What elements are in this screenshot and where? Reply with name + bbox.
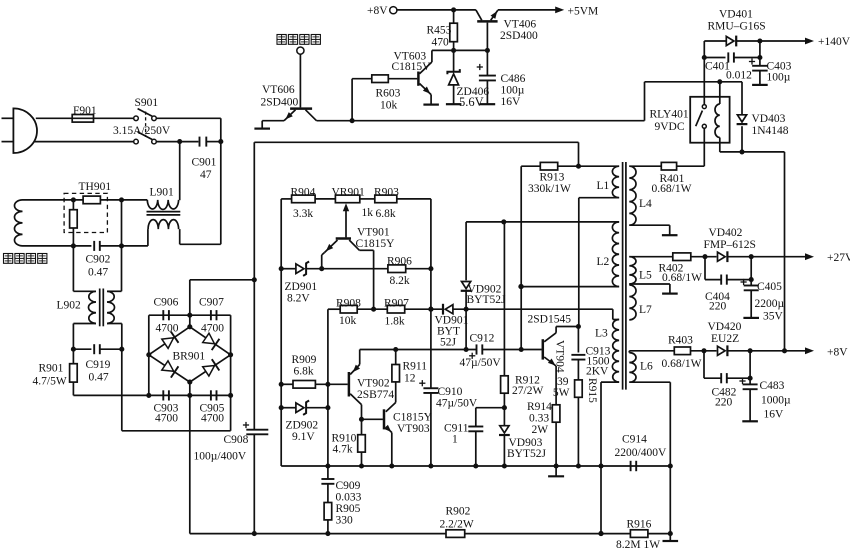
svg-text:100µ/400V: 100µ/400V [194,451,247,463]
svg-text:100µ: 100µ [767,72,791,84]
label L6 [640,361,653,373]
potentiometer VR901 [335,195,359,203]
winding L5 [629,257,636,284]
wire control return [281,463,673,468]
svg-text:4.7/5W: 4.7/5W [33,376,67,388]
svg-text:0.68/1W: 0.68/1W [662,358,702,370]
svg-text:R916: R916 [627,519,652,531]
label R402 0.68/1W [659,263,703,285]
svg-text:C907: C907 [199,297,224,309]
wire L6 bottom down [629,382,670,533]
svg-text:6.8k: 6.8k [376,208,396,220]
ground at R916 [663,534,679,541]
wire L2 top [466,219,619,224]
wire to C911 [476,408,505,427]
capacitor C909 [321,466,334,503]
wire L1 top [576,164,619,169]
wire C404 left [705,257,721,280]
svg-text:C902: C902 [86,254,111,266]
svg-text:330: 330 [336,515,354,527]
svg-text:+5VM: +5VM [568,6,599,18]
svg-text:RLY401: RLY401 [650,109,689,121]
capacitor C403 + ground [749,41,768,85]
bridge diode D1 [162,332,179,349]
svg-text:1N4148: 1N4148 [752,125,789,137]
label R403 0.68/1W [662,335,702,371]
wire to ZD902 [281,407,296,409]
svg-text:FMP–612S: FMP–612S [704,239,756,251]
label +140V [818,36,850,48]
svg-text:+8V: +8V [827,346,848,358]
label R902 2.2/2W [440,506,474,531]
label C486 100u 16V [501,73,526,108]
label VT902 2SB774 [357,378,394,402]
transformer T901 core [623,162,626,390]
degaussing coil [15,200,23,246]
capacitor C405 + ground [741,257,760,318]
ground at R914 [548,466,564,476]
capacitor C911 [468,427,483,467]
svg-text:BR901: BR901 [173,351,206,363]
svg-text:C908: C908 [224,434,249,446]
transistor VT902 base bar [348,372,351,397]
wire L902 right to bridge AC2 [122,349,231,431]
wire ZD902 right [306,407,328,409]
label C483 1000u 16V [760,380,792,421]
label R910 4.7k [332,433,357,456]
svg-text:RMU–G16S: RMU–G16S [708,21,766,33]
label VD903 BYT52J [507,437,547,460]
label R915 39 5W [553,376,598,403]
svg-text:8.2k: 8.2k [390,275,410,287]
TH901 dashed box [64,193,107,232]
svg-text:12: 12 [404,373,416,385]
capacitor C903 [163,390,169,400]
wire L5-L7 tap + ground [629,284,677,294]
label L1 [597,180,610,192]
resistor R401 [661,162,676,170]
svg-text:BYT52J: BYT52J [507,448,547,460]
capacitor C912 [469,344,521,359]
svg-text:L6: L6 [640,361,653,373]
label R603 10k [376,88,401,112]
svg-text:VD402: VD402 [709,227,743,239]
wire R402 to VD402 [691,254,717,259]
wire to L902 right top [107,246,122,291]
label C912 47u/50V [460,333,502,370]
svg-text:R906: R906 [387,256,412,268]
resistor R402 [673,253,691,261]
capacitor C908 [243,422,268,534]
wire degauss top [23,199,84,201]
label S901 [135,97,159,109]
svg-text:C405: C405 [757,281,782,293]
wire C482 left [704,351,721,378]
wire VD902 cathode [465,291,467,309]
capacitor C483 + ground [739,351,758,422]
wire R401 right [677,143,705,167]
capacitor C913 [571,327,585,380]
svg-text:+27V: +27V [827,252,850,264]
label C914 2200/400V [615,434,667,460]
svg-text:330k/1W: 330k/1W [528,183,571,195]
svg-text:1.8k: 1.8k [385,316,405,328]
label L901 [150,187,175,199]
bridge diode D2 [203,333,220,350]
relay RLY401 contacts [696,97,707,129]
svg-text:S901: S901 [135,97,159,109]
wire R908 left down [325,309,340,468]
label VT904 [554,340,566,373]
label VT901 C1815Y [356,227,396,251]
capacitor C902 [94,241,100,251]
AC plug P901 [2,108,38,153]
svg-text:R909: R909 [292,354,317,366]
wire ZD901 to R906 [306,266,388,271]
label C911 1 [444,423,469,446]
label L3 [595,328,608,340]
wire HV+ drop to R913 node [578,142,580,166]
svg-text:5.6V: 5.6V [459,95,484,109]
svg-text:R901: R901 [39,363,64,375]
wire R907 to VD901 [405,307,443,312]
svg-text:2SD400: 2SD400 [261,97,299,109]
svg-text:L3: L3 [595,328,608,340]
wire L902 left bottom [73,324,96,350]
bridge diode D4 [203,359,220,376]
svg-text:R914: R914 [527,401,552,413]
label VD403 1N4148 [752,113,789,137]
wire standby to VT606 base [299,54,301,107]
svg-text:1000µ: 1000µ [761,395,791,407]
svg-text:1: 1 [452,434,458,446]
label VD420 EU2Z [708,321,742,345]
svg-text:C906: C906 [154,297,179,309]
svg-text:C919: C919 [86,359,111,371]
resistor R403 [674,347,690,355]
transistor VT603 emitter + ground [420,84,439,105]
svg-text:2200/400V: 2200/400V [615,447,667,459]
svg-text:3.3k: 3.3k [293,208,313,220]
diode VD402 [718,251,728,262]
wire R901 to bridge [73,394,148,396]
svg-text:C1815Y: C1815Y [356,238,396,250]
label C401 0.012 [705,61,752,82]
wire VD902 anode [465,222,467,280]
wire L3 top stub [613,309,619,319]
switch S901 [134,109,157,144]
zener ZD902 [296,401,309,415]
winding L1 [612,166,619,198]
label L4 [639,198,652,210]
transistor VT903 emitter [384,425,394,469]
resistor R603 [372,75,389,83]
resistor R907 [387,305,404,313]
svg-text:4700: 4700 [201,323,224,335]
svg-text:8.2M 1W: 8.2M 1W [616,539,660,549]
bridge side rails [149,315,231,431]
label ZD902 9.1V [286,420,319,444]
svg-text:4.7k: 4.7k [333,444,353,456]
capacitor C919 [94,344,100,354]
label R904 3.3k [291,186,316,220]
capacitor C486 + ground [477,50,496,104]
svg-text:4700: 4700 [201,413,224,425]
transistor VT902 emitter [350,350,360,375]
wire bridge - down to rail [189,395,191,533]
bridge diode D3 [162,361,179,378]
capacitor C482 [721,373,752,383]
svg-text:470: 470 [432,37,450,49]
VR901 wiper arm [343,203,349,237]
label C404 220 [705,291,730,313]
svg-text:R902: R902 [446,506,471,518]
diode VD901 [443,304,453,315]
label R912 27/2W [512,375,543,398]
wire VD90x node to C912 row [464,309,469,352]
wire bridge - stub [189,382,191,395]
capacitor C906 [163,310,169,320]
wire R401 to L4 [629,165,661,167]
label ZD406 5.6V [457,86,490,109]
relay RLY401 coil [715,82,720,152]
wire bridge bottom [146,393,233,398]
transistor VT901 collector [349,240,373,309]
resistor R904 [292,195,316,203]
wire L902 right bottom [107,324,122,350]
svg-text:2W: 2W [532,424,549,436]
resistor R902 [446,530,465,538]
svg-text:L5: L5 [639,270,652,282]
label R908 10k [336,298,361,328]
wire L6 to R403 [629,350,674,352]
wire R913 right [558,165,579,167]
resistor R911 [392,350,400,382]
svg-text:4700: 4700 [156,323,179,335]
wire bottom rail mid [465,531,631,536]
resistor R912 [501,376,509,410]
wire VT903 base node [359,417,383,422]
wire bridge top [149,313,231,318]
fuse F901 [72,115,93,123]
svg-text:C914: C914 [622,434,647,446]
winding L2 [612,222,619,287]
label R913 330k/1W [528,172,571,196]
wire R909 left [281,383,293,385]
capacitor C404 [721,275,754,285]
transistor VT903 base bar [383,409,386,429]
transistor VT406 collector [476,10,482,20]
label C910 47u/50V [436,386,478,410]
wire C919 row [71,347,125,352]
wire line A down [220,118,222,244]
label VT406 2SD400 [500,18,538,42]
bridge rectifier BR901 diamond [146,324,233,384]
resistor R910 [358,419,366,468]
svg-text:TH901: TH901 [79,181,112,193]
label ZD901 8.2V [285,281,318,305]
svg-text:+140V: +140V [818,36,850,48]
label R906 8.2k [387,256,412,288]
transformer L902 [89,289,115,327]
wire R913 left to base node [519,166,541,352]
wire L1 bottom to collector [579,198,619,327]
svg-text:C1815V: C1815V [392,61,432,73]
svg-text:VT902: VT902 [357,378,390,390]
resistor R903 [375,195,397,203]
svg-text:47: 47 [200,169,212,181]
wire fuse to switch [94,117,135,119]
svg-text:0.47: 0.47 [88,267,108,279]
svg-text:R904: R904 [291,186,316,198]
svg-text:ZD901: ZD901 [285,281,318,293]
label L7 [639,304,652,316]
label VD401 RMU-G16S [708,9,766,33]
svg-text:R913: R913 [540,172,565,184]
svg-text:VT903: VT903 [397,423,430,435]
resistor R906 [388,265,406,273]
wire node B down to L901 top right [179,142,181,201]
thermistor TH901 series element [83,196,100,204]
label C919 0.47 [86,359,111,384]
wire degauss bottom [23,245,92,247]
svg-text:8.2V: 8.2V [287,293,310,305]
label C482 220 [712,387,737,409]
svg-text:R908: R908 [336,298,361,310]
transistor VT606 base bar [290,107,312,110]
capacitor C401 [704,52,762,62]
wire top row [281,198,431,200]
resistor R913 [540,162,557,170]
label degauss coil (CJK) [4,254,47,264]
svg-text:R911: R911 [403,361,428,373]
wire right rail [428,199,433,388]
label C905 4700 [200,403,225,425]
svg-text:47µ/50V: 47µ/50V [460,357,502,369]
svg-text:VT901: VT901 [357,227,390,239]
node A-C901 junction [218,139,223,144]
diode VD902 [461,282,472,291]
svg-text:VT606: VT606 [262,84,295,96]
label C405 2200u 35V [755,281,785,323]
svg-text:5W: 5W [553,387,570,399]
svg-text:220: 220 [715,397,733,409]
wire TH to L901 top left [100,197,147,202]
transistor VT903 collector [386,382,396,412]
label C403 100u [767,61,792,84]
svg-text:C909: C909 [336,480,361,492]
transistor VT406 base bar [477,20,497,23]
wire VD901 anode to L3 [453,307,613,312]
wire HV+ top run [254,141,578,143]
svg-text:L2: L2 [597,256,610,268]
wire L3 bottom down [598,382,619,536]
resistor R908 [340,305,357,313]
svg-text:BYT52J: BYT52J [467,294,507,306]
svg-text:3.15A/250V: 3.15A/250V [113,125,171,137]
label R901 4.7/5W [33,363,67,388]
svg-text:10k: 10k [380,100,398,112]
capacitor C907 [211,310,217,320]
wire VT406 base stub [486,23,488,51]
wire L5 to R402 [629,256,673,258]
svg-text:C910: C910 [438,386,463,398]
wire bottom rail right [648,531,673,536]
svg-text:0.012: 0.012 [726,70,752,82]
svg-text:L7: L7 [639,304,652,316]
svg-text:4700: 4700 [155,413,178,425]
wire +8V top [397,7,476,12]
svg-text:0.33: 0.33 [529,413,549,425]
svg-text:2SD400: 2SD400 [500,30,538,42]
transistor VT902 collector [350,394,361,420]
resistor R915 [575,380,583,466]
label R916 8.2M 1W [616,519,660,549]
transistor VT901 emitter [322,240,338,269]
diode VD903 [499,408,510,466]
wire jog to L901 bottom right [180,229,221,244]
svg-text:6.8k: 6.8k [294,366,314,378]
terminal +8V [367,5,397,17]
wire TH box right vertical [121,200,123,246]
wire switch bottom to node B [156,141,198,143]
label L902 [57,300,82,312]
svg-text:VD420: VD420 [708,321,742,333]
transistor VT406 emitter [491,10,498,20]
label 2SD1545 [528,314,572,326]
label C913 1500 2KV [586,346,611,378]
resistor R453 [450,10,458,51]
svg-text:0.47: 0.47 [89,372,109,384]
label VT603 C1815V [392,51,432,74]
svg-text:C912: C912 [470,333,495,345]
wire rail to relay coil [645,79,743,120]
label R401 0.68/1W [652,173,692,195]
label L2 [597,256,610,268]
wire L901 bottom left drop [147,229,149,246]
wire to L902 left top [73,246,96,291]
svg-text:0.68/1W: 0.68/1W [662,272,702,284]
zener ZD901 [296,262,309,276]
svg-text:9VDC: 9VDC [655,121,685,133]
svg-text:L4: L4 [639,198,652,210]
wire HV+ vertical [253,142,255,429]
output +5VM [498,6,598,18]
svg-text:2SB774: 2SB774 [357,389,394,401]
transistor VT904 base bar [542,339,545,359]
svg-text:10k: 10k [339,315,357,327]
wire emitter row [360,347,477,352]
winding L6 [629,351,636,382]
wire VT902 base [315,383,347,385]
label C903 4700 [154,403,179,425]
svg-text:C901: C901 [192,157,217,169]
wire to ZD901 [281,268,296,270]
label L5 [639,270,652,282]
label BR901 [173,351,206,363]
svg-text:220: 220 [709,301,727,313]
resistor R916 [630,530,648,538]
winding L4 [629,166,636,225]
svg-text:C486: C486 [501,73,526,85]
label C902 0.47 [86,254,111,279]
thermistor TH901 vertical element [70,197,78,248]
wire collector node [556,324,581,329]
svg-text:0.033: 0.033 [336,492,362,504]
label RLY401 9VDC [650,109,689,134]
wire +27V output [728,252,850,264]
wire R906 right [406,268,431,270]
